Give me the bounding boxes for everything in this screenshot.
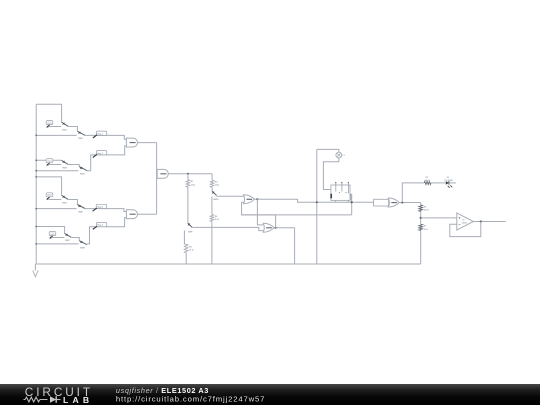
wire U4 output [254,198,257,200]
svg-text:R6: R6 [424,206,427,208]
svg-text:SW1: SW1 [62,129,67,131]
wire SW5 throw stub [49,199,61,201]
toggle button SW5 [46,193,53,197]
flag F4 [96,223,106,227]
wire D1 anode out [449,182,456,184]
svg-text:SW9: SW9 [188,231,193,233]
switch SW8 [79,241,87,245]
wire SW1 throw stub [49,126,61,128]
wire SW5 to SW6 [68,200,77,205]
wire U1 output [137,142,156,144]
wire U3 output [168,173,212,175]
wire lamp bottom to relay coil [323,158,338,190]
svg-text:D1: D1 [447,177,450,179]
svg-text:LTL-307EE: LTL-307EE [444,180,454,182]
svg-text:1k Ω: 1k Ω [191,184,196,186]
AND gate U3 [157,169,168,178]
wire U2 output [137,213,156,215]
switch SW9 [188,223,192,227]
wire SW9 throw to R2 [184,230,186,244]
wire divider to op-amp + [421,217,457,219]
svg-text:SW6: SW6 [78,211,83,213]
LED D1 [446,181,449,185]
svg-text:R7: R7 [424,226,427,228]
wire U5 out to rail [294,228,296,264]
buffer U6 [374,199,389,206]
switch SW2 [77,131,85,135]
svg-text:R4: R4 [215,216,218,218]
wire node B up [402,183,424,203]
svg-text:R3: R3 [215,182,218,184]
wire bottom rail [35,263,420,265]
svg-text:U7: U7 [462,220,464,222]
wire U7 feedback [450,222,481,237]
svg-text:100 Ω: 100 Ω [424,210,430,212]
wire SW3 to SW4 [68,165,79,167]
svg-text:L1: L1 [342,155,345,157]
svg-text:SW3: SW3 [62,167,67,169]
wire R2 to rail [185,253,187,264]
AND gate U1 [126,138,137,147]
svg-text:http://circuitlab.com/c7fmjj22: http://circuitlab.com/c7fmjj2247w57 [116,394,265,403]
svg-text:R5: R5 [426,177,429,179]
wire SW1 to SW2 [68,127,77,132]
logo diode [50,396,56,403]
wire U4 out to node A [257,199,373,202]
wire SW10 to R4 [211,197,213,215]
wire R7 to rail [420,231,422,265]
svg-text:usqjfisher / ELE1502 A3: usqjfisher / ELE1502 A3 [116,385,209,394]
wire U7 output [473,221,505,223]
wire SW9 to U5 input B [192,227,263,230]
switch SW7 [65,233,72,237]
OR gate U6b [388,198,399,207]
wire SW7 throw stub [52,237,64,239]
wire G4 bottom stub [36,243,78,245]
svg-text:flag_2: flag_2 [97,153,104,155]
svg-text:1k Ω: 1k Ω [215,185,220,187]
wire G2 top stub [36,159,61,161]
wire U6 output [399,202,421,204]
resistor R1 [186,180,190,188]
wire SW7 to SW8 [71,238,79,241]
OR gate U5 [263,223,274,232]
svg-text:100 Ω: 100 Ω [425,180,431,182]
svg-text:SW10: SW10 [213,199,219,201]
svg-text:1k Ω: 1k Ω [215,219,220,221]
wire G3 bottom stub [36,208,76,210]
switch SW5 [62,195,69,199]
wire G3 top stub [36,177,61,195]
wire relay contact common [351,194,353,215]
wire G2 bottom stub [36,170,78,172]
wire U3 out to R1 [187,174,189,180]
svg-text:R2: R2 [189,246,192,248]
flag F2 [96,151,106,155]
toggle button SW3 [46,159,53,163]
resistor R7 [419,224,423,230]
wire U3 out to R3 [211,174,213,180]
svg-text:SW7: SW7 [65,240,70,242]
resistor R3 [210,180,214,187]
wire G3 output to gate U2 input A [85,209,126,212]
ground [34,264,36,271]
wire SW3 throw stub [49,164,61,166]
switch SW3 [62,160,69,164]
wire G4 output to gate U2 input B [87,218,127,244]
OR gate U4 [244,195,255,204]
wire U1/U2 outputs to U3 inputs [156,143,158,215]
wire R5 to D1 [431,182,446,184]
wire U5 output [274,227,295,229]
op-amp U7 [457,213,474,230]
relay K1 [331,185,350,200]
svg-text:LAB: LAB [63,395,93,405]
wire G4 top stub [36,227,64,234]
svg-text:SW4: SW4 [80,173,85,175]
wire node B to R6 [420,203,422,205]
svg-text:R1: R1 [191,181,194,183]
wire feedback to relay contact [242,214,352,216]
flag F3 [96,204,106,208]
wire G1 bottom stub [36,134,76,136]
svg-text:SW2: SW2 [78,138,83,140]
svg-text:1k Ω: 1k Ω [424,229,429,231]
wire lamp top loop [317,149,339,152]
wire R6 to R7 [420,211,422,224]
wire G2 output to gate U1 input B [87,146,126,171]
svg-text:flag_1: flag_1 [97,133,104,135]
wire SW10 to U4 input A [217,195,245,197]
toggle button SW1 [46,121,53,125]
svg-text:1k Ω: 1k Ω [189,250,194,252]
switch SW4 [79,167,87,171]
wire ground bus vertical [35,104,37,264]
AND gate U2 [126,210,137,219]
wire R3 to SW10 [211,187,213,191]
logo resistor squiggle [24,397,48,402]
wire G1 output to gate U1 input A [85,135,126,139]
wire R4 to rail [211,222,213,264]
svg-text:flag_3: flag_3 [97,207,104,209]
svg-text:flag_4: flag_4 [97,225,104,227]
switch SW1 [62,122,69,126]
toggle button SW7 [49,232,56,236]
svg-text:SW5: SW5 [62,202,67,204]
wire U4 out cross to U5 input A [257,199,263,225]
svg-text:LM741: LM741 [462,222,468,224]
resistor R6 [419,205,423,212]
resistor R4 [210,214,214,221]
resistor R5 [424,181,431,184]
wire U5 out feedback to U4 input B [242,202,276,227]
flag F1 [96,131,106,135]
lamp L1 [336,152,342,158]
resistor R2 [184,244,188,253]
wire G1 top stub [36,104,61,122]
switch SW10 [212,191,217,195]
wire R1 to SW9 [187,187,189,223]
wire node A vertical [316,149,318,264]
svg-text:SW8: SW8 [80,248,85,250]
switch SW6 [77,205,85,209]
